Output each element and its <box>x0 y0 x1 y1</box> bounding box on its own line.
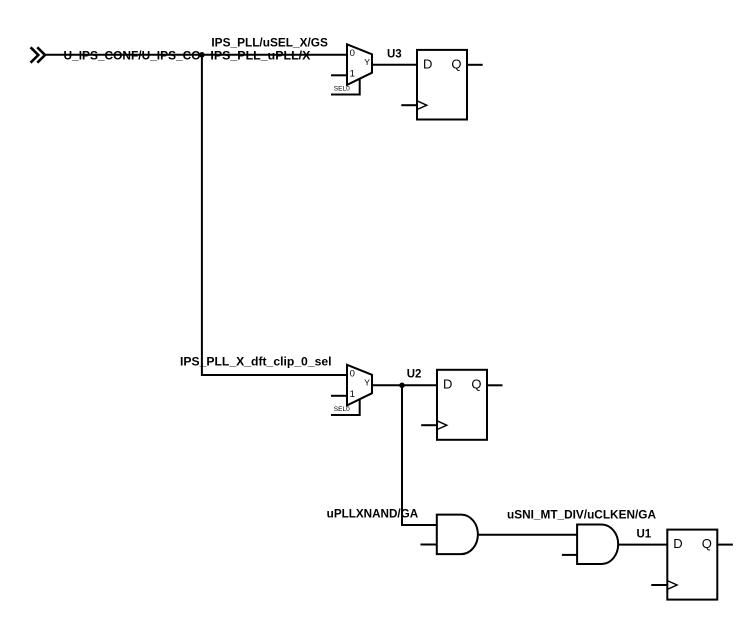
wire mux2 select <box>331 399 360 415</box>
svg-text:U_IPS_CONF/U_IPS_CO: U_IPS_CONF/U_IPS_CO <box>64 50 201 62</box>
wire mux1 Y to U3 D <box>372 64 417 66</box>
input port chevron <box>32 48 46 62</box>
and gate G2 <box>577 525 618 565</box>
clock triangle U3 <box>417 101 427 110</box>
node junction dot on main net <box>199 52 205 58</box>
wire U2 clock stub <box>421 424 437 426</box>
svg-text:IPS_PLL_X_dft_clip_0_sel: IPS_PLL_X_dft_clip_0_sel <box>180 357 332 369</box>
wire mux1 select <box>331 79 360 95</box>
clock triangle U1 <box>667 581 677 590</box>
wire AND1 bottom input stub <box>421 544 437 546</box>
and gate G1 <box>437 515 478 555</box>
wire AND1 out to AND2 top input <box>478 534 577 536</box>
svg-text:Q: Q <box>702 536 712 551</box>
wire U3 clock stub <box>401 104 417 106</box>
flip-flop U3 <box>417 50 467 120</box>
svg-text:Y: Y <box>364 378 370 388</box>
clock triangle U2 <box>437 421 447 430</box>
svg-text:D: D <box>423 56 432 71</box>
svg-text:U3: U3 <box>387 49 402 61</box>
flip-flop U1 <box>667 530 717 600</box>
wire mux1 input-1 stub <box>331 74 347 76</box>
wire U3 Q output stub <box>467 64 483 66</box>
wire AND2 bottom input stub <box>562 554 577 556</box>
mux U_MX1 <box>347 44 372 85</box>
svg-text:uPLLXNAND/GA: uPLLXNAND/GA <box>327 509 419 521</box>
wire U1 Q output stub <box>717 544 733 546</box>
svg-text:0: 0 <box>350 368 355 379</box>
svg-text:1: 1 <box>350 389 355 400</box>
svg-text:uSNI_MT_DIV/uCLKEN/GA: uSNI_MT_DIV/uCLKEN/GA <box>507 510 656 522</box>
wire mux2 input-1 stub <box>331 395 347 397</box>
wire AND2 out to U1 D <box>618 544 667 546</box>
svg-text:0: 0 <box>350 48 355 59</box>
svg-text:IPS_PLL_uPLL/X: IPS_PLL_uPLL/X <box>210 50 310 62</box>
wire vertical drop to mux2 input <box>202 55 347 375</box>
wire junction down to AND1 top input <box>402 385 437 525</box>
svg-text:Q: Q <box>471 376 481 391</box>
svg-text:U1: U1 <box>637 529 652 541</box>
mux U_MX2 <box>347 365 372 406</box>
svg-text:1: 1 <box>350 68 355 79</box>
svg-text:SEL0: SEL0 <box>334 86 350 93</box>
flip-flop U2 <box>437 370 487 440</box>
svg-text:Q: Q <box>451 56 461 71</box>
svg-text:D: D <box>673 536 682 551</box>
wire net U_IPS_CONF main horizontal <box>45 54 347 56</box>
svg-text:IPS_PLL/uSEL_X/GS: IPS_PLL/uSEL_X/GS <box>211 38 328 50</box>
svg-text:Y: Y <box>364 57 370 67</box>
svg-text:D: D <box>443 376 452 391</box>
svg-text:SEL0: SEL0 <box>334 406 350 413</box>
svg-text:U2: U2 <box>407 369 422 381</box>
wire U2 Q output stub <box>487 384 503 386</box>
wire U1 clock stub <box>651 584 667 586</box>
wire mux2 Y to U2 D <box>372 384 437 386</box>
node junction dot on mux2 output <box>399 383 405 389</box>
